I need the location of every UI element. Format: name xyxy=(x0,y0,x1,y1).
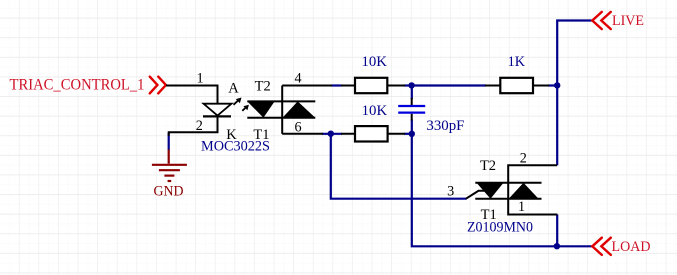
svg-text:10K: 10K xyxy=(361,54,387,70)
svg-text:1: 1 xyxy=(196,71,203,87)
svg-text:4: 4 xyxy=(294,71,301,87)
resistor R2 10K leads xyxy=(341,133,405,135)
svg-text:1K: 1K xyxy=(508,54,526,70)
capacitor C1 plates xyxy=(411,98,413,121)
opto U1 pin 2 xyxy=(169,116,218,135)
triac Q1 top line xyxy=(475,182,541,184)
wire: pin6 junction down to gate row and across to gate xyxy=(331,134,467,199)
svg-text:MOC3022S: MOC3022S xyxy=(201,138,270,154)
triac Q1 pin 2 xyxy=(508,165,557,183)
opto U1 triac bottom line xyxy=(247,117,315,119)
triac Q1 left triangle xyxy=(477,183,504,199)
resistor R3 1K leads xyxy=(485,85,549,87)
svg-text:6: 6 xyxy=(294,120,301,136)
svg-text:T2: T2 xyxy=(480,158,496,174)
opto U1 LED cathode bar xyxy=(203,115,231,117)
triac Q1 bottom line xyxy=(475,198,541,200)
svg-text:10K: 10K xyxy=(362,103,388,119)
junction dot R1/cap/1K xyxy=(408,82,414,88)
junction dot LOAD row / pin1 xyxy=(554,243,560,249)
port TRIAC_CONTROL_1 chevron xyxy=(150,77,166,94)
svg-text:TRIAC_CONTROL_1: TRIAC_CONTROL_1 xyxy=(10,76,145,93)
resistor R3 1K body xyxy=(500,78,533,93)
opto U1 pin 1 xyxy=(166,86,218,104)
triac Q1 gate pin 3 xyxy=(466,191,487,199)
svg-text:330pF: 330pF xyxy=(426,118,464,134)
port LOAD chevron xyxy=(592,238,611,255)
svg-text:A: A xyxy=(228,81,239,97)
wire: GND net vertical xyxy=(168,133,170,150)
wire: capacitor top vertical xyxy=(411,86,413,100)
wire: junction down to LOAD row and right to LOAD port xyxy=(412,134,592,247)
wire: capacitor bottom vertical xyxy=(411,120,413,134)
opto U1 triac vertical xyxy=(281,86,283,134)
svg-text:Z0109MN0: Z0109MN0 xyxy=(467,219,533,235)
triac Q1 vertical xyxy=(507,183,509,199)
svg-text:2: 2 xyxy=(520,150,527,166)
opto U1 triac left triangle xyxy=(247,101,274,117)
junction dot R2/cap/LOAD xyxy=(409,131,415,137)
svg-text:LOAD: LOAD xyxy=(612,239,651,255)
opto U1 pin 4 xyxy=(282,85,332,87)
wire: pin6 to R2 segment xyxy=(322,133,342,135)
wire: R2 right to junction xyxy=(404,133,412,135)
port LIVE chevron xyxy=(592,12,611,29)
opto U1 triac top line xyxy=(247,100,315,102)
wire: 1K right to LIVE column, up and to LIVE port xyxy=(548,21,592,86)
opto U1 light arrow 2 xyxy=(242,105,249,111)
opto U1 LED triangle xyxy=(204,104,232,116)
opto U1 light arrow 1 xyxy=(234,98,242,105)
svg-text:T2: T2 xyxy=(255,78,271,94)
resistor R2 10K body xyxy=(355,126,388,141)
svg-text:GND: GND xyxy=(154,184,184,200)
wire: pin4 to R1 segment xyxy=(331,84,342,86)
triac Q1 pin 1 xyxy=(508,199,557,215)
ground symbol xyxy=(152,150,187,182)
svg-text:1: 1 xyxy=(518,199,525,215)
svg-text:3: 3 xyxy=(447,184,454,200)
svg-text:2: 2 xyxy=(196,118,203,134)
triac Q1 right triangle xyxy=(509,183,539,199)
svg-text:LIVE: LIVE xyxy=(612,13,644,29)
opto U1 pin 6 xyxy=(282,133,323,135)
resistor R1 10K leads xyxy=(341,85,405,87)
opto U1 triac right triangle xyxy=(283,101,316,117)
wire: triac pin1 down to LOAD row xyxy=(556,215,558,247)
wire: LIVE column down to triac pin2 xyxy=(556,86,558,166)
junction dot 1K/LIVE/pin2 xyxy=(554,82,560,88)
resistor R1 10K body xyxy=(355,78,387,93)
junction dot pin6/R2/gate xyxy=(328,131,334,137)
wire: R1 right to 1K left xyxy=(404,84,486,86)
